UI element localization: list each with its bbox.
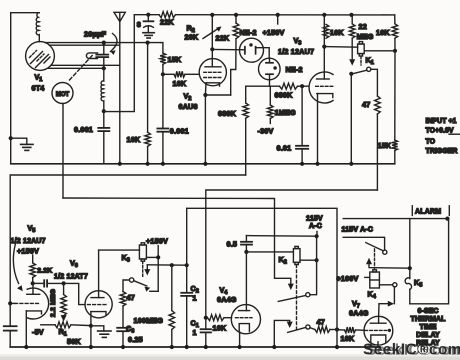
resistor 680K horizontal xyxy=(280,83,298,89)
pointer arrow for 20uuF xyxy=(111,34,118,52)
svg-text:0A4G: 0A4G xyxy=(217,295,237,304)
svg-text:10K: 10K xyxy=(330,28,344,37)
label +150V stub xyxy=(277,15,279,24)
mechanical link motor to tuning capacitor (dashed) xyxy=(70,55,94,80)
wire V5 cathode to bus xyxy=(25,311,27,347)
capacitor input left xyxy=(4,325,17,327)
neon lamp NE-2 no.2 xyxy=(259,58,281,80)
wire contact feed with arrow xyxy=(146,265,148,270)
svg-text:TRIGGER: TRIGGER xyxy=(426,148,458,155)
relay K2 coil xyxy=(293,249,300,263)
ground symbol left xyxy=(9,136,13,140)
svg-text:10K: 10K xyxy=(213,324,227,333)
wire armature 115VAC no.2 xyxy=(366,258,372,264)
motor MOT xyxy=(52,83,73,104)
resistor 22K top-left xyxy=(159,12,176,18)
wire V2 cathode xyxy=(204,83,207,95)
resistor 2.2MEG xyxy=(63,283,65,294)
svg-text:1/2 12AT7: 1/2 12AT7 xyxy=(54,274,88,281)
tube V6 internals xyxy=(91,297,104,299)
wire K1 coil to 10K right xyxy=(364,50,395,52)
svg-text:MEG: MEG xyxy=(357,32,374,41)
potentiometer R2 wire xyxy=(211,15,213,49)
capacitor C3 xyxy=(122,306,124,328)
capacitor 0.001 no.2 xyxy=(157,128,168,130)
svg-text:115V: 115V xyxy=(306,216,323,223)
wire V6 plate to K3 xyxy=(99,249,140,251)
svg-text:1MEG: 1MEG xyxy=(275,108,296,117)
wire V7 starter xyxy=(379,304,390,317)
wire motor relay line xyxy=(63,198,291,284)
capacitor C2 xyxy=(181,292,192,294)
tube V2 internals xyxy=(211,49,213,67)
resistor 47 no.2 xyxy=(120,292,126,307)
svg-text:+100V: +100V xyxy=(337,274,359,283)
resistor 100MEG xyxy=(170,263,174,267)
svg-text:50K: 50K xyxy=(67,337,81,346)
tube V1 envelope xyxy=(26,42,55,71)
link K3 dashed xyxy=(142,262,144,278)
ground symbol V6 xyxy=(91,326,104,331)
wire K3 contact to 47 xyxy=(123,280,129,292)
antenna xyxy=(114,12,125,21)
resistor 680K vertical xyxy=(245,86,247,103)
wire K2 right xyxy=(300,259,317,261)
svg-text:10K: 10K xyxy=(173,79,187,88)
svg-text:22: 22 xyxy=(359,22,367,31)
ground bus bottom xyxy=(10,346,380,348)
relay K3 coil xyxy=(139,245,146,259)
svg-text:+150V: +150V xyxy=(17,247,39,256)
relay K4 coil xyxy=(370,272,380,288)
resistor 10K grid V4 xyxy=(204,316,208,320)
svg-text:47: 47 xyxy=(127,293,135,302)
watermark SeekIC.com xyxy=(363,342,460,360)
svg-text:INPUT +1: INPUT +1 xyxy=(426,118,457,125)
wire input rail second xyxy=(10,175,246,326)
resistor 22MEG xyxy=(351,15,353,24)
svg-text:1/2 12AU7: 1/2 12AU7 xyxy=(278,47,314,56)
wire grid line V3 xyxy=(246,85,280,87)
svg-text:20μμF: 20μμF xyxy=(84,30,107,39)
inductor L1 antenna coil xyxy=(36,13,39,42)
tube V2 envelope xyxy=(199,59,226,86)
switch K2 lower contact xyxy=(274,320,289,347)
svg-text:10K: 10K xyxy=(341,334,355,343)
wire motor to relay line xyxy=(62,104,64,199)
node choke junction xyxy=(102,109,106,113)
tube V5 half envelope xyxy=(27,288,48,319)
svg-text:DELAY: DELAY xyxy=(416,332,440,339)
switch 115VAC no.2 xyxy=(343,237,384,250)
wire delay node line xyxy=(206,190,378,329)
link K4 dashed xyxy=(374,249,376,271)
svg-text:100MEG: 100MEG xyxy=(134,316,164,325)
wire left rail top xyxy=(11,13,39,164)
wire C2 branch xyxy=(185,263,189,267)
scan edge shading (decorative) xyxy=(0,357,460,360)
wire V6 cathode xyxy=(90,312,92,347)
wire K4 to starter contact xyxy=(379,284,392,286)
svg-text:680K: 680K xyxy=(218,109,237,118)
svg-text:22K: 22K xyxy=(160,18,174,27)
tube V1 internal electrodes xyxy=(30,51,51,68)
resistor 2.2K xyxy=(32,255,34,263)
resistor 10K top right xyxy=(394,15,396,24)
resistor 15K no.1 xyxy=(161,43,163,53)
svg-text:0.5: 0.5 xyxy=(227,240,238,249)
wire varcap leads xyxy=(103,43,105,54)
wire alarm feed line xyxy=(343,218,448,220)
wire V1 plate pair upper xyxy=(45,42,161,44)
tube V4 internals xyxy=(245,252,247,311)
svg-text:6-SEC: 6-SEC xyxy=(417,308,438,315)
neon lamp NE-2 no.1 xyxy=(240,38,264,62)
svg-text:+150V: +150V xyxy=(146,237,168,246)
resistor 10K grid V7 xyxy=(345,327,356,333)
potentiometer R1 xyxy=(41,324,55,326)
inductor L2 choke xyxy=(101,68,104,111)
relay K1 coil xyxy=(358,44,365,54)
svg-text:-5V: -5V xyxy=(32,328,44,337)
svg-text:20K: 20K xyxy=(185,33,199,42)
capacitor 8uF xyxy=(147,15,149,21)
svg-text:10K: 10K xyxy=(127,135,141,144)
svg-text:47: 47 xyxy=(317,318,325,327)
resistor 1MEG xyxy=(269,86,271,105)
svg-text:A-C: A-C xyxy=(309,223,322,230)
svg-text:NE-2: NE-2 xyxy=(286,65,303,74)
tube V6 envelope xyxy=(85,291,112,318)
svg-text:10K: 10K xyxy=(376,28,390,37)
resistor 47 no.3 xyxy=(310,328,315,330)
switch K1 contact xyxy=(367,67,371,71)
wire antenna down-lead xyxy=(119,22,121,164)
svg-text:ALARM: ALARM xyxy=(415,209,441,216)
svg-text:1: 1 xyxy=(193,328,197,337)
resistor 10K plate V3 xyxy=(323,24,329,38)
tube V7 internals xyxy=(378,316,380,323)
link K1 dashed xyxy=(360,57,362,66)
pointer arrow to V5 xyxy=(13,244,18,284)
svg-text:TO: TO xyxy=(426,139,436,146)
wire V3 cathode to bus xyxy=(317,94,319,164)
wire armature to bus xyxy=(350,74,352,164)
svg-text:0.25: 0.25 xyxy=(128,335,143,344)
resistor 22K screen xyxy=(235,15,237,23)
svg-text:THERMAL: THERMAL xyxy=(411,316,447,323)
svg-text:NE-2: NE-2 xyxy=(240,28,257,37)
tube V3 internals xyxy=(323,15,325,47)
tube V3 half envelope xyxy=(309,72,333,103)
svg-text:680K: 680K xyxy=(275,91,294,100)
tube V7 envelope xyxy=(364,316,393,345)
svg-text:2.2 MEG: 2.2 MEG xyxy=(50,289,57,317)
tube V5 internals xyxy=(27,293,40,295)
wire 15K node to 0.001 no.2 xyxy=(162,74,164,128)
capacitor C1 xyxy=(201,328,211,330)
wire +150V top rail xyxy=(134,14,159,16)
wire V6 grid L xyxy=(64,283,85,304)
svg-text:6T4: 6T4 xyxy=(32,84,45,93)
svg-text:0.01: 0.01 xyxy=(277,144,292,153)
switch K3 contact xyxy=(129,278,133,282)
wire V1 cathode pair lower xyxy=(51,64,120,66)
node 15K bottom xyxy=(161,72,165,76)
svg-text:+150V: +150V xyxy=(263,28,285,37)
wire 8cap node down xyxy=(147,43,149,133)
wire K2 left xyxy=(246,251,293,253)
svg-text:-30V: -30V xyxy=(258,127,274,136)
svg-text:8: 8 xyxy=(137,20,141,29)
resistor 10K grid V2 xyxy=(174,71,185,77)
node rail junctions xyxy=(146,13,150,17)
resistor 10K vertical left xyxy=(145,132,151,146)
wire 0.5 top to 115VAC stub xyxy=(246,235,316,238)
svg-text:0.001: 0.001 xyxy=(170,127,189,136)
ground bus main xyxy=(11,163,395,165)
svg-text:0A4G: 0A4G xyxy=(349,309,369,318)
capacitor coupling V5-V6 xyxy=(33,282,45,284)
svg-text:115V A-C: 115V A-C xyxy=(342,227,374,234)
svg-text:22K: 22K xyxy=(216,34,230,43)
node: junction dots on resonator lines xyxy=(102,41,106,45)
capacitor 0.01 xyxy=(300,84,304,88)
resistor 15K right xyxy=(394,51,396,140)
wire 115VAC down to contact xyxy=(310,236,317,295)
node R2 top / R2 bottom xyxy=(210,13,214,17)
wire coupling link xyxy=(104,15,135,112)
thermal relay K5 xyxy=(409,219,411,279)
svg-text:6AU6: 6AU6 xyxy=(179,102,198,111)
tube V4 envelope xyxy=(231,305,260,334)
wire 10K plate node to relay K1 xyxy=(324,46,357,49)
ground under 8uF cap xyxy=(143,32,154,34)
svg-text:1: 1 xyxy=(193,294,197,303)
svg-text:2.2K: 2.2K xyxy=(37,268,52,275)
wire alarm box bottom/right xyxy=(410,219,449,304)
wire V4 cathode xyxy=(239,332,241,347)
svg-text:0.001: 0.001 xyxy=(74,125,93,134)
svg-text:47: 47 xyxy=(362,100,370,109)
resonator hairpin line xyxy=(86,53,97,59)
wire +150V stub K3 xyxy=(157,246,159,292)
wire 115VAC line xyxy=(187,208,337,347)
svg-text:MOT: MOT xyxy=(56,92,70,98)
wire choke lower to ground bus xyxy=(103,111,105,128)
resistor 47 no.1 xyxy=(375,96,381,114)
wire K1 contact to 47 xyxy=(371,69,378,96)
capacitor 0.001 no.1 xyxy=(98,127,109,129)
link K2 dashed xyxy=(296,265,298,331)
variable capacitor 20uuF plates xyxy=(96,54,108,56)
svg-text:15K: 15K xyxy=(168,55,182,64)
svg-text:15K: 15K xyxy=(378,141,392,150)
wire 47 down to K2 feed line xyxy=(376,114,378,190)
potentiometer R2 arrow xyxy=(203,29,218,39)
svg-text:TIME: TIME xyxy=(419,324,436,331)
switch K2 upper contact xyxy=(306,293,310,297)
